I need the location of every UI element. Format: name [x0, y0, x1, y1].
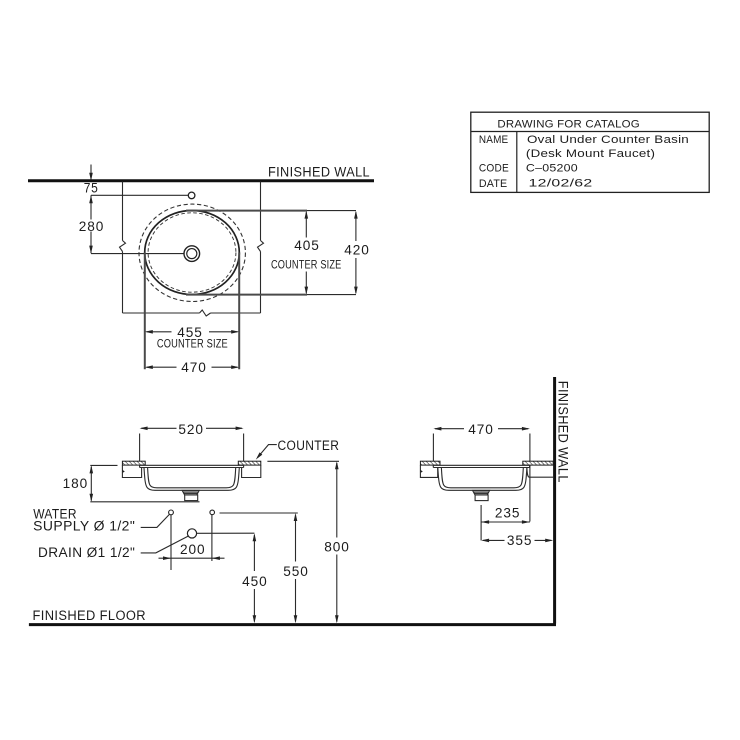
svg-text:75: 75 — [84, 181, 99, 196]
faucet hole — [188, 192, 195, 199]
svg-text:COUNTER SIZE: COUNTER SIZE — [271, 259, 342, 271]
break mark bottom edge — [200, 310, 211, 316]
counter hatch right (front) — [238, 461, 260, 465]
tiny arrow mark left box — [122, 470, 125, 473]
line wall to faucet (75 level) — [91, 194, 188, 196]
svg-text:470: 470 — [181, 360, 207, 375]
drain hole (front) — [187, 529, 196, 538]
drain leader — [141, 536, 189, 553]
svg-text:800: 800 — [324, 540, 350, 555]
svg-text:280: 280 — [79, 219, 105, 234]
svg-text:420: 420 — [344, 243, 370, 258]
drain center vertical (side) — [480, 505, 482, 540]
drain top view — [184, 246, 200, 262]
svg-text:200: 200 — [180, 542, 206, 557]
svg-text:470: 470 — [468, 422, 494, 437]
thick extension bottom (405/420) — [186, 294, 307, 296]
svg-text:FINISHED WALL: FINISHED WALL — [268, 165, 370, 180]
counter hatch left (front) — [122, 461, 145, 465]
svg-text:355: 355 — [507, 533, 533, 548]
dim 75 — [90, 165, 92, 180]
counter outline top view — [123, 182, 261, 314]
svg-text:450: 450 — [242, 574, 268, 589]
svg-text:550: 550 — [283, 564, 309, 579]
thick extension right (455/470) — [238, 253, 240, 370]
wall line (right) — [553, 377, 556, 624]
title block frame — [471, 112, 709, 192]
dim 455 — [147, 331, 172, 333]
basin bowl outer (front) — [144, 468, 239, 491]
svg-text:CODE: CODE — [479, 163, 509, 175]
counter slab right (side) — [527, 468, 553, 477]
inner dashed ellipse — [148, 213, 236, 292]
water supply leader — [141, 514, 170, 527]
svg-text:405: 405 — [294, 238, 320, 253]
counter box left (side) — [420, 465, 437, 477]
svg-text:FINISHED WALL: FINISHED WALL — [556, 381, 571, 483]
svg-text:C–05200: C–05200 — [526, 163, 578, 175]
svg-text:DATE: DATE — [479, 178, 508, 190]
floor line — [29, 623, 556, 626]
basin bowl inner (front) — [148, 468, 236, 488]
basin flange (side) — [433, 465, 529, 467]
basin flange (front) — [140, 465, 244, 467]
solid ellipse (basin 470x420) — [145, 211, 240, 295]
dim 280 — [89, 246, 93, 254]
dim 405 — [305, 212, 307, 237]
svg-text:180: 180 — [63, 476, 89, 491]
dim 470 (side) — [432, 434, 434, 461]
dim 355 — [483, 539, 505, 541]
counter hatch right (side, to wall) — [523, 461, 553, 465]
basin bowl inner (side) — [441, 468, 523, 488]
tiny arrow mark left box (side) — [420, 470, 423, 473]
svg-text:COUNTER SIZE: COUNTER SIZE — [157, 339, 228, 351]
svg-text:(Desk Mount Faucet): (Desk Mount Faucet) — [526, 148, 655, 160]
supply extension verticals — [170, 515, 172, 570]
dim 450 — [253, 535, 255, 571]
dim 235 — [481, 521, 530, 523]
drain fitting upper (front) — [182, 490, 199, 495]
basin bowl outer (side) — [438, 468, 527, 491]
wall line (top) — [28, 179, 374, 182]
svg-text:235: 235 — [495, 505, 521, 520]
dim 420 — [355, 212, 357, 241]
thick extension left (455/470) — [144, 253, 146, 370]
550 extension line — [220, 512, 298, 514]
svg-text:NAME: NAME — [479, 134, 509, 146]
dim 800 — [336, 463, 338, 538]
svg-text:520: 520 — [178, 422, 204, 437]
svg-text:DRAIN Ø1 1/2": DRAIN Ø1 1/2" — [38, 545, 135, 560]
svg-text:Oval Under Counter Basin: Oval Under Counter Basin — [527, 134, 689, 146]
svg-text:DRAWING FOR CATALOG: DRAWING FOR CATALOG — [497, 118, 640, 130]
dim 520 — [139, 434, 141, 461]
break mark left edge — [120, 241, 126, 252]
counter box right (front) — [242, 465, 261, 477]
drain fitting lower (front) — [185, 495, 198, 501]
break mark right edge — [258, 241, 264, 252]
line drain to 450 dim — [197, 532, 255, 534]
dim 200 — [171, 557, 212, 559]
dim 470 (top view) — [147, 366, 177, 368]
800 extension line — [267, 460, 339, 462]
drain fitting lower (side) — [475, 495, 488, 501]
center line to drain (280 level) — [91, 253, 184, 255]
water supply holes (front) — [169, 510, 174, 515]
dim 180 — [90, 464, 117, 466]
svg-text:COUNTER: COUNTER — [278, 438, 340, 453]
drain fitting upper (side) — [473, 490, 490, 495]
outer dashed ellipse (basin outer rim) — [139, 204, 245, 301]
counter hatch left (side) — [420, 461, 440, 465]
svg-text:12/02/62: 12/02/62 — [529, 178, 593, 190]
svg-text:SUPPLY Ø 1/2": SUPPLY Ø 1/2" — [33, 519, 135, 534]
counter box left (front) — [122, 465, 141, 477]
thick extension top (405/420) — [186, 210, 307, 212]
svg-text:FINISHED FLOOR: FINISHED FLOOR — [33, 608, 147, 623]
dim 550 — [295, 515, 297, 562]
